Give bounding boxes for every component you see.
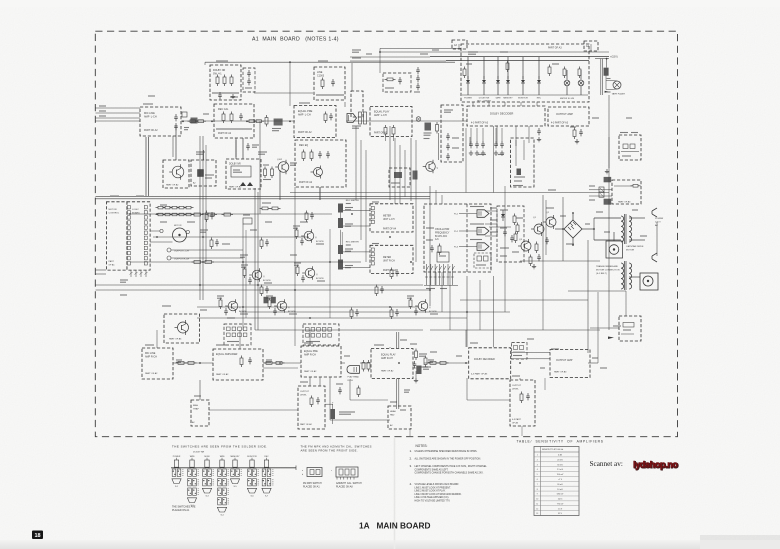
svg-text:18: 18 (34, 533, 40, 539)
